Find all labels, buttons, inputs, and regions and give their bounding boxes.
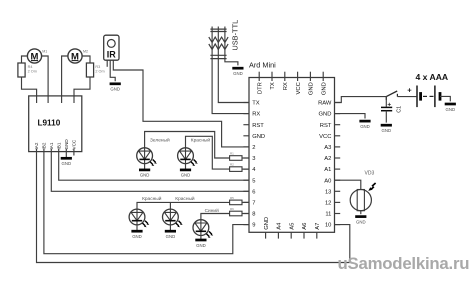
svg-text:VD3: VD3 <box>365 171 375 177</box>
Ard pin 9 (left) <box>243 223 255 229</box>
svg-text:VCC: VCC <box>296 82 302 94</box>
svg-text:RX: RX <box>252 112 260 118</box>
svg-text:IB2: IB2 <box>42 142 47 149</box>
ground IR <box>110 84 121 92</box>
ground battery <box>445 104 456 112</box>
wire IR signal to Ard pin 2 <box>113 60 249 147</box>
Ard pin GND (top) <box>321 72 327 95</box>
Ard pin 10 (right) <box>325 223 340 229</box>
Ard pin DTR (top) <box>257 72 263 94</box>
Ard pin GND (bottom) <box>264 217 270 239</box>
resistor R5 at Ard pin 7 <box>230 196 249 205</box>
LED VD blue <box>193 220 213 238</box>
svg-text:GND: GND <box>319 112 332 118</box>
Ard pin 5 (left) <box>243 178 255 184</box>
svg-text:GND: GND <box>64 139 69 150</box>
wire USB-TTL TX to Ard TX <box>218 59 249 103</box>
Ard pin A3 (right) <box>324 145 340 151</box>
resistor R6 at Ard pin 8 <box>230 207 249 216</box>
red bottom LED1 cathode stub <box>136 225 138 231</box>
Ard pin RX (top) <box>283 72 289 91</box>
wire Ard RAW to switch <box>335 97 387 103</box>
wire L9110 IA2 to Ard pin 10 (bottom bus) <box>37 149 350 263</box>
capacitor C1 <box>381 97 402 123</box>
svg-text:A7: A7 <box>315 223 321 230</box>
Ard pin 2 (left) <box>243 145 255 151</box>
svg-text:RX: RX <box>283 82 289 90</box>
svg-text:GND: GND <box>321 82 327 95</box>
wire Ard GND right to ground <box>335 114 366 119</box>
svg-text:9: 9 <box>252 223 255 229</box>
Ard pin A0 (right) <box>324 178 340 184</box>
svg-text:A1: A1 <box>324 167 331 173</box>
ground red top LED <box>180 170 191 178</box>
ground VD3 <box>355 217 366 225</box>
svg-text:R6: R6 <box>230 207 234 211</box>
svg-text:Красный: Красный <box>175 195 195 202</box>
resistor R3 <box>86 63 104 77</box>
svg-text:C1: C1 <box>396 106 402 113</box>
svg-text:USB-TTL: USB-TTL <box>230 20 239 51</box>
svg-text:GND: GND <box>309 82 315 95</box>
Ard pin 11 (right) <box>325 212 340 218</box>
svg-text:2: 2 <box>252 145 255 151</box>
wire L9110 IB2 to Ard pin 9 <box>44 149 249 254</box>
green LED cathode stub <box>144 164 146 170</box>
Ard pin RST (left) <box>243 123 264 129</box>
svg-text:M2: M2 <box>83 49 88 53</box>
ground red bottom LED2 <box>165 231 176 239</box>
svg-text:11: 11 <box>325 212 331 218</box>
Ard pin A7 (bottom) <box>315 223 321 239</box>
Ard pin 3 (left) <box>243 156 255 162</box>
battery GB1 4 x AAA <box>415 72 448 107</box>
svg-text:8: 8 <box>252 212 255 218</box>
resistor R2 at Ard pin 4 <box>230 163 249 172</box>
ground L9110 <box>61 158 72 166</box>
svg-text:7: 7 <box>252 201 255 207</box>
svg-text:VCC: VCC <box>319 134 331 140</box>
Ard pin A2 (right) <box>324 156 340 162</box>
motor M1 <box>27 49 47 63</box>
Ard pin GND (right) <box>319 112 341 118</box>
wire Ard A0 to VD3 <box>335 180 361 189</box>
wire IR pin 2 to ground <box>110 60 115 81</box>
wire USB-TTL GND <box>225 59 238 65</box>
wire M1 right to L9110 pin OB <box>42 56 49 103</box>
svg-text:IA1: IA1 <box>49 142 54 149</box>
svg-text:A2: A2 <box>324 156 331 162</box>
wire switch to battery <box>397 96 416 98</box>
svg-text:Красный: Красный <box>142 195 162 202</box>
Ard pin TX (top) <box>270 72 276 90</box>
wire L9110 IA1 to Ard pin 6 <box>51 149 249 192</box>
svg-text:GND: GND <box>252 134 265 140</box>
Ard pin 4 (left) <box>243 167 256 173</box>
svg-text:6: 6 <box>252 189 255 195</box>
switch S1 <box>386 91 397 100</box>
IC U2 Ard Mini <box>249 60 335 232</box>
svg-text:3: 3 <box>252 156 255 162</box>
svg-text:R5: R5 <box>230 196 234 200</box>
svg-text:TX: TX <box>252 101 260 107</box>
LED VD red top <box>178 148 198 166</box>
svg-text:10: 10 <box>325 223 331 229</box>
wire USB-TTL RX to Ard RX <box>212 59 249 114</box>
wire red top LED to R at pin 4 <box>186 136 230 169</box>
L9110 VCC stub <box>73 149 75 156</box>
photodiode VD3 <box>350 171 375 215</box>
svg-text:+: + <box>407 85 412 94</box>
Ard pin RX (left) <box>243 112 260 118</box>
svg-text:uSamodelkina.ru: uSamodelkina.ru <box>338 254 470 273</box>
svg-text:R3: R3 <box>95 65 100 69</box>
svg-text:4 x AAA: 4 x AAA <box>415 72 448 82</box>
svg-text:Ard Mini: Ard Mini <box>249 60 276 69</box>
Ard pin VCC (top) <box>296 72 302 95</box>
Ard pin VCC (right) <box>319 134 340 140</box>
Ard pin TX (left) <box>243 101 259 107</box>
Ard pin 13 (right) <box>325 189 340 195</box>
wire blue LED to R at pin 8 <box>201 214 230 220</box>
Ard pin GND (top) <box>309 72 315 95</box>
svg-text:R4: R4 <box>28 65 33 69</box>
wire bottom red LEDs to R at pin 7 <box>137 202 230 209</box>
svg-text:M1: M1 <box>42 49 47 53</box>
red bottom LED2 cathode stub <box>169 225 171 231</box>
svg-text:2 Om: 2 Om <box>28 69 37 73</box>
connector USB-TTL <box>209 20 240 59</box>
svg-text:A0: A0 <box>324 178 331 184</box>
wire L9110 IB1 to Ard pin 5 <box>59 149 249 181</box>
LED VD red bottom 1 <box>129 209 149 227</box>
LED VD green <box>137 148 157 166</box>
svg-text:5: 5 <box>252 178 255 184</box>
Ard pin A6 (bottom) <box>302 223 308 239</box>
svg-text:A6: A6 <box>302 223 308 230</box>
Ard pin RST (right) <box>320 123 340 129</box>
ground C1 <box>381 125 392 133</box>
svg-text:DTR: DTR <box>257 82 263 94</box>
motor M2 <box>68 49 88 63</box>
L9110 GND pin wire <box>65 149 67 158</box>
svg-text:L9110: L9110 <box>38 118 61 127</box>
svg-text:A3: A3 <box>324 145 331 151</box>
ground red bottom LED1 <box>131 231 142 239</box>
Ard pin A5 (bottom) <box>289 223 295 239</box>
wire M1 left to R4 to L9110 pin OA <box>22 56 28 63</box>
Ard pin 7 (left) <box>243 201 255 207</box>
Ard pin GND (left) <box>243 134 265 140</box>
svg-text:VCC: VCC <box>72 139 77 149</box>
LED VD red bottom 2 <box>163 209 183 227</box>
Ard pin A1 (right) <box>324 167 340 173</box>
Ard pin 12 (right) <box>325 201 340 207</box>
svg-text:12: 12 <box>325 201 331 207</box>
svg-text:A4: A4 <box>277 222 283 230</box>
svg-text:GND: GND <box>264 217 270 230</box>
svg-text:13: 13 <box>325 189 331 195</box>
ground green LED <box>139 170 150 178</box>
svg-text:RST: RST <box>252 123 264 129</box>
svg-text:R2: R2 <box>230 163 234 167</box>
ground blue LED <box>195 240 206 248</box>
wire drop to second red LED <box>169 202 171 209</box>
svg-text:IA2: IA2 <box>34 142 39 149</box>
wire green LED to R at pin 3 <box>145 132 230 159</box>
IR pin 1 stub <box>106 60 108 67</box>
ground USB-TTL <box>232 68 243 76</box>
resistor R4 <box>18 63 37 77</box>
svg-text:IR: IR <box>107 49 117 59</box>
svg-text:RAW: RAW <box>318 101 332 107</box>
blue LED cathode stub <box>200 236 202 240</box>
resistor R1 at Ard pin 3 <box>230 152 249 161</box>
Ard pin A4 (bottom) <box>277 222 283 239</box>
ground Ard GND right <box>359 121 370 129</box>
svg-text:R1: R1 <box>230 152 234 156</box>
svg-text:A5: A5 <box>289 223 295 230</box>
svg-text:Синий: Синий <box>205 207 219 214</box>
red top LED cathode stub <box>185 164 187 170</box>
Ard pin RAW (right) <box>318 101 340 107</box>
Ard pin 8 (left) <box>243 212 255 218</box>
svg-text:RST: RST <box>320 123 332 129</box>
wire battery minus to ground <box>440 96 450 101</box>
svg-text:2 Om: 2 Om <box>95 69 104 73</box>
wire M2 left to L9110 <box>62 56 68 103</box>
svg-text:TX: TX <box>270 82 276 90</box>
svg-text:Зеленый: Зеленый <box>150 137 170 144</box>
wire M2 right through R3 to L9110 <box>82 56 90 63</box>
IC L9110 <box>29 96 82 152</box>
svg-text:IB1: IB1 <box>56 142 61 149</box>
svg-text:Красный: Красный <box>191 136 211 143</box>
IR receiver U1 <box>104 35 119 60</box>
Ard pin 6 (left) <box>243 189 255 195</box>
